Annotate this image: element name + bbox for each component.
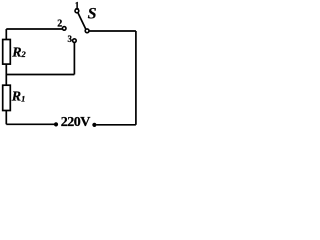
svg-text:3: 3 — [68, 34, 73, 44]
contact 1 circle — [75, 9, 79, 13]
contact 2 circle — [62, 27, 66, 31]
wire left vertical middle (R2 to R1) — [5, 64, 7, 85]
svg-text:2: 2 — [57, 18, 62, 29]
svg-text:S: S — [88, 6, 97, 23]
wire left vertical upper (top wire to R2) — [5, 29, 7, 40]
switch S lever (pivot to contact 1) — [78, 13, 86, 30]
220V left terminal dot — [54, 122, 58, 126]
wire right vertical — [135, 31, 137, 125]
wire bottom left (to 220V left terminal) — [6, 123, 54, 125]
wire contact-3 stub vertical — [73, 42, 75, 74]
switch pivot contact circle — [85, 29, 89, 33]
svg-text:220V: 220V — [61, 115, 91, 130]
wire top-right horizontal (switch pivot to corner) — [89, 30, 136, 32]
wire middle horizontal (R1/R2 junction to contact 3 stub) — [6, 74, 74, 76]
resistor R2 — [3, 40, 11, 65]
svg-text:1: 1 — [75, 1, 80, 11]
contact 3 circle — [73, 39, 77, 43]
wire top-left horizontal (R2 top to contact 2) — [6, 28, 62, 30]
resistor R1 — [3, 85, 11, 110]
wire left vertical lower (R1 to bottom wire) — [5, 111, 7, 125]
wire bottom right (220V right terminal to corner) — [96, 124, 135, 126]
220V right terminal dot — [92, 123, 96, 127]
